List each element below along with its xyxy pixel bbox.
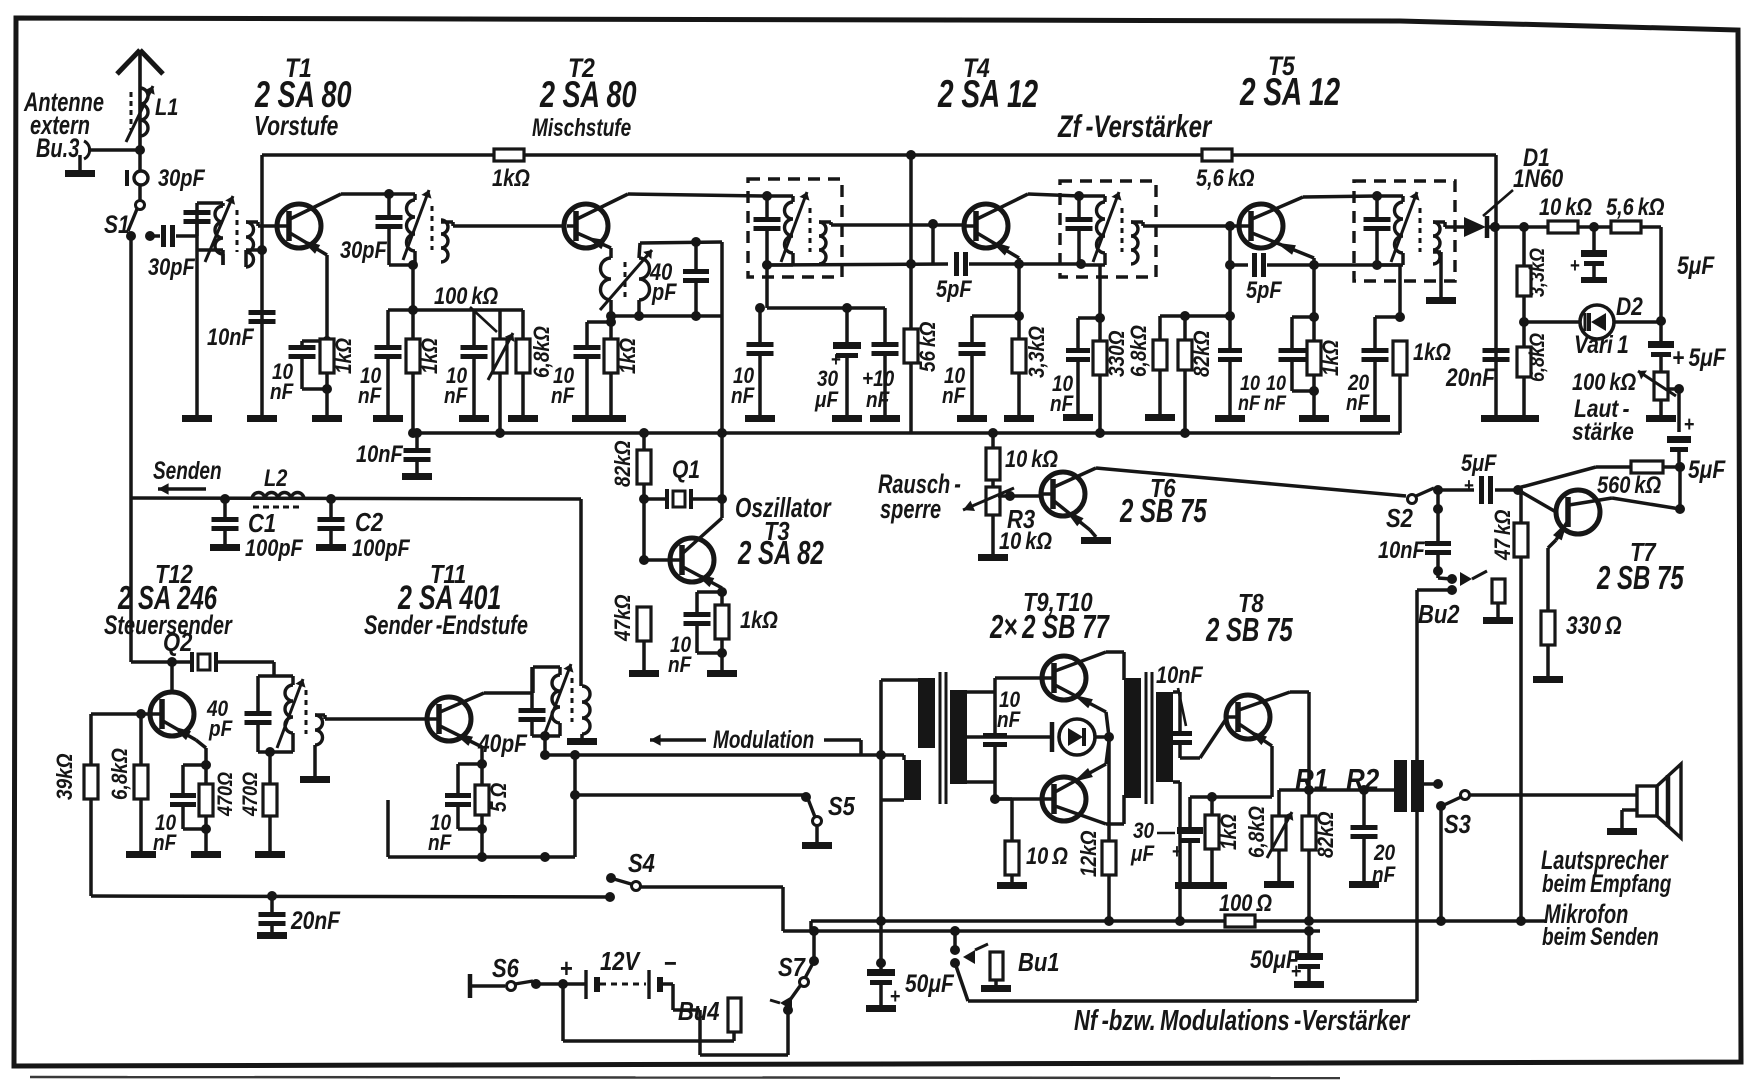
svg-text:2 SB 75: 2 SB 75: [1119, 493, 1207, 530]
wire osc winding top: [639, 243, 640, 258]
pot wiper to 5uF coupling: [1674, 384, 1684, 394]
wire T1-tank secondary to T2 base: [441, 220, 453, 224]
svg-text:nF: nF: [358, 384, 382, 409]
antenna tank secondary coil: [246, 222, 254, 267]
svg-text:Bu1: Bu1: [1018, 948, 1060, 977]
wire IF3 bottom to 20nF/1k row: [1377, 263, 1400, 267]
wire trafo upper primary left: [881, 678, 918, 682]
svg-text:470Ω: 470Ω: [214, 772, 238, 817]
output transformer secondary: [1156, 692, 1173, 782]
bias riser T4 from bus: [906, 150, 916, 160]
svg-text:100pF: 100pF: [352, 534, 410, 561]
svg-text:+: +: [831, 348, 841, 371]
T2 emitter resistor 1kOhm: [609, 316, 613, 339]
capacitor 10nF T4 emitter: [972, 314, 1019, 318]
node C1: [220, 494, 230, 504]
wire secondary top to T9: [967, 690, 995, 694]
svg-text:10 Ω: 10 Ω: [1026, 842, 1068, 869]
svg-text:10 kΩ: 10 kΩ: [1539, 193, 1592, 220]
wire battery rail: [783, 929, 1320, 933]
svg-text:Sender -Endstufe: Sender -Endstufe: [364, 610, 528, 639]
wire mid: [1577, 225, 1612, 229]
speaker: [1637, 786, 1657, 816]
wire secondary to T11 base: [315, 713, 325, 717]
svg-text:Q1: Q1: [672, 455, 700, 483]
svg-text:30pF: 30pF: [340, 236, 387, 263]
ground x262: [247, 415, 277, 422]
resistor 1kOhm T1 emitter: [320, 339, 334, 373]
wire S3 to speaker: [1470, 793, 1637, 797]
svg-text:1N60: 1N60: [1513, 164, 1563, 192]
svg-text:3,3kΩ: 3,3kΩ: [1526, 248, 1550, 297]
volume pot branch: capacitor 5uF: [1659, 321, 1663, 341]
microphone transformer winding left: [1394, 760, 1407, 812]
wire T2 collector to IF1 top: [628, 194, 767, 196]
resistor 560kOhm: [1518, 467, 1596, 488]
svg-text:2× 2 SB 77: 2× 2 SB 77: [989, 609, 1110, 646]
resistor 1kOhm T2 base: [411, 310, 415, 339]
capacitor 30uF electrolytic: [845, 308, 849, 342]
diode D2 varicap line: [1524, 320, 1581, 324]
wire Bu2 second contact to mic trafo column: [1417, 588, 1452, 592]
svg-text:10nF: 10nF: [1378, 536, 1425, 563]
pointer 10nF T8: [1178, 688, 1186, 726]
capacitor 10nF T11: [458, 762, 482, 766]
node C2: [326, 494, 336, 504]
capacitor 10nF T1 emitter: [302, 339, 327, 343]
jack Bu2: [1447, 574, 1457, 584]
svg-text:5pF: 5pF: [1246, 276, 1282, 303]
svg-text:30: 30: [1133, 819, 1155, 844]
IF3 tuned circuit: [1377, 194, 1403, 198]
dash 30uF: [1157, 832, 1175, 835]
transistor T2: [564, 204, 608, 248]
ground T3 emitter: [707, 670, 737, 677]
svg-text:5pF: 5pF: [936, 275, 972, 302]
resistor 1kOhm T5 emitter: [1307, 341, 1321, 375]
svg-text:5 Ω: 5 Ω: [487, 783, 512, 812]
capacitor 20nF (detector filter): [1373, 317, 1377, 348]
svg-text:μF: μF: [814, 388, 839, 413]
antenna tank coil (tuned): [221, 203, 225, 206]
svg-text:82kΩ: 82kΩ: [1190, 330, 1215, 377]
transistor T8: [1226, 695, 1270, 739]
svg-text:C2: C2: [355, 508, 384, 537]
capacitor C2 100pF: [329, 499, 333, 517]
wire to 20nF and mic trafo: [1309, 788, 1364, 792]
capacitor 10nF AGC: [883, 308, 887, 342]
wire modulation arrow: [650, 738, 706, 741]
wire secondary to T1 base: [246, 220, 258, 224]
svg-text:Senden: Senden: [153, 456, 222, 484]
svg-text:10 kΩ: 10 kΩ: [1005, 445, 1058, 472]
wire Q2 line: [131, 660, 192, 664]
resistor 6,8kOhm bias2: [521, 310, 525, 339]
IF1 tuned circuit: [767, 194, 793, 198]
wire trafo lower primary bottom: [881, 798, 904, 802]
lower supply bus wire: [409, 431, 1400, 435]
resistor 12kOhm: [1107, 737, 1111, 841]
capacitor 10nF T3: [697, 590, 722, 594]
battery 12V: [584, 970, 587, 999]
wire trimmer to S1: [138, 185, 142, 200]
wire Bu4 to S7 contact: [673, 1008, 700, 1012]
svg-text:S6: S6: [492, 954, 519, 983]
svg-text:50μF: 50μF: [905, 969, 955, 997]
svg-text:S7: S7: [778, 953, 806, 982]
svg-text:10nF: 10nF: [1156, 661, 1203, 688]
resistor 56kOhm: [904, 329, 918, 363]
svg-text:1kΩ: 1kΩ: [492, 164, 530, 191]
resistor 47kOhm T7: [1518, 488, 1521, 492]
wire S3 arm down to bus: [1439, 806, 1443, 921]
switch S5: [813, 817, 822, 826]
wire mod to trafo: [861, 753, 904, 757]
capacitor 40pF T11 tank: [530, 667, 534, 708]
wire out-trafo secondary top: [1173, 690, 1180, 694]
resistor 470 Ohm tank dropper: [268, 752, 272, 784]
svg-text:1kΩ: 1kΩ: [418, 338, 443, 374]
wire 20nF node to mic trafo: [1364, 788, 1394, 792]
node 20nF key: [267, 891, 277, 901]
output transformer primary: [1124, 678, 1141, 798]
IF transformer 2 (dashed can): [1060, 181, 1156, 277]
capacitor 5pF neutralizing T4: [931, 224, 935, 264]
svg-text:47kΩ: 47kΩ: [611, 594, 636, 641]
wire 10nF S2 branch: [1436, 490, 1440, 541]
svg-text:560 kΩ: 560 kΩ: [1597, 471, 1661, 498]
svg-text:nF: nF: [866, 388, 890, 413]
svg-text:nF: nF: [997, 708, 1021, 733]
svg-text:1kΩ: 1kΩ: [1217, 814, 1242, 850]
svg-text:1kΩ: 1kΩ: [1413, 338, 1451, 365]
ground T11 secondary: [580, 734, 584, 738]
capacitor C1 100pF: [223, 499, 227, 517]
transistor T11: [427, 697, 471, 741]
svg-text:stärke: stärke: [1572, 417, 1634, 445]
resistor 6,8kOhm agc: [1522, 322, 1526, 347]
switch S6: [468, 974, 473, 998]
transistor T6: [1041, 472, 1085, 516]
microphone transformer winding right: [1411, 760, 1424, 812]
capacitor 30pF series (RX): [148, 234, 160, 238]
wire S4 to supply corner: [640, 885, 783, 889]
oscillator column vertical: [717, 428, 727, 438]
resistor 5,6kOhm det: [1611, 221, 1641, 233]
node IF2 bottom: [1076, 259, 1086, 269]
output transformer core: [1145, 672, 1148, 804]
wire T4 emitter down: [1017, 258, 1021, 316]
driver transformer primary winding lower: [904, 760, 921, 800]
svg-text:5μF: 5μF: [1461, 449, 1497, 476]
transistor T7: [1556, 490, 1600, 534]
potentiometer 100kOhm volume: [1654, 372, 1668, 400]
resistor 1kOhm T3: [715, 605, 729, 639]
svg-text:82kΩ: 82kΩ: [1314, 811, 1339, 858]
wire det to right corner: [1640, 225, 1661, 229]
resistor 330 Ohm: [1541, 611, 1555, 645]
capacitor 10nF T5 base decoupling: [1218, 348, 1242, 353]
capacitor 5uF detector (electrolytic): [1592, 227, 1596, 250]
wire out-trafo secondary bottom: [1173, 780, 1180, 784]
svg-text:D2: D2: [1616, 292, 1643, 320]
svg-text:nF: nF: [444, 384, 468, 409]
wire tank1 bottom down: [411, 265, 415, 310]
svg-text:5μF: 5μF: [1688, 455, 1726, 483]
wire T5 bias row: [1160, 314, 1230, 318]
svg-text:6,8kΩ: 6,8kΩ: [108, 748, 133, 800]
ground T1 emitter: [312, 415, 342, 422]
T11 emitter network: [480, 747, 484, 857]
svg-text:2 SA 82: 2 SA 82: [737, 535, 824, 572]
trimmer R1 6,8kOhm: [1277, 790, 1281, 816]
resistor 10kOhm det: [1548, 221, 1578, 233]
wire IF2 secondary to T5 base: [1131, 220, 1143, 224]
wire to T12 tank top: [272, 662, 276, 676]
wire T8 collector: [1290, 690, 1309, 694]
T11 tank top wire: [533, 665, 560, 669]
wire R1/R2 top: [1279, 788, 1309, 792]
capacitor 10nF below bus: [412, 428, 422, 438]
wire to T8 base: [1200, 719, 1226, 758]
transistor T4: [964, 204, 1008, 248]
svg-text:56 kΩ: 56 kΩ: [916, 322, 941, 372]
trimmer resistor 100kOhm: [498, 310, 502, 339]
mic trafo tap to S3 contact: [1424, 782, 1438, 786]
transistor T3 oscillator: [670, 538, 714, 582]
antenna symbol: [138, 52, 142, 150]
switch S7: [809, 956, 819, 966]
scan page edge artifact: [30, 1077, 1340, 1078]
resistor 1kOhm (AGC return): [1393, 341, 1407, 375]
capacitor 10nF under IF1: [758, 308, 762, 342]
svg-text:+: +: [1464, 474, 1474, 497]
wire S6 to battery: [536, 982, 586, 986]
svg-text:Mischstufe: Mischstufe: [532, 113, 631, 141]
wire R3 wiper to T6 base: [998, 494, 1041, 498]
speaker ground bracket: [1622, 808, 1637, 812]
svg-text:L2: L2: [264, 464, 287, 491]
svg-text:6,8kΩ: 6,8kΩ: [530, 326, 555, 378]
wire NF return column: [879, 680, 883, 921]
node IF2 top: [1074, 191, 1084, 201]
svg-text:30pF: 30pF: [158, 164, 205, 191]
antenna tank top wire: [197, 201, 223, 205]
trimmer R2 82kOhm: [1307, 790, 1311, 816]
wire to T7 base: [1518, 490, 1556, 512]
wire T7 emitter to 330: [1548, 540, 1556, 548]
wire TX feed vertical: [129, 498, 133, 662]
svg-text:1kΩ: 1kΩ: [1319, 340, 1344, 376]
wire upper NF bus: [811, 919, 1545, 923]
wire T12 base bias: [91, 712, 150, 716]
capacitor 5uF S2 (series): [1438, 488, 1474, 492]
svg-text:2 SB 75: 2 SB 75: [1596, 560, 1684, 597]
svg-text:100 kΩ: 100 kΩ: [1572, 368, 1636, 395]
ground T12 secondary: [313, 745, 317, 776]
switch S4: [605, 892, 615, 902]
wire Senden line down to T11 output coil: [579, 499, 583, 686]
node T1 tank top: [384, 189, 394, 199]
capacitor 20nF NF: [1362, 790, 1366, 825]
capacitor 10nF IF2 dropper: [1078, 316, 1100, 320]
node tank1 bottom: [408, 260, 418, 270]
resistor 5 Ohm: [475, 785, 489, 815]
svg-text:−: −: [664, 949, 677, 978]
svg-text:beim Empfang: beim Empfang: [1542, 869, 1672, 897]
svg-text:nF: nF: [1050, 392, 1074, 417]
oscillator injection transformer at T2 emitter: [609, 248, 613, 258]
svg-text:Zf -Verstärker: Zf -Verstärker: [1057, 109, 1213, 144]
svg-text:pF: pF: [208, 717, 233, 742]
svg-text:Nf -bzw. Modulations -Verstärk: Nf -bzw. Modulations -Verstärker: [1074, 1005, 1411, 1037]
detector output wire: [1487, 225, 1549, 229]
wire IF3 secondary to D1: [1433, 220, 1445, 224]
switch S1: [136, 201, 145, 210]
svg-text:6,8kΩ: 6,8kΩ: [1245, 806, 1270, 858]
svg-text:10nF: 10nF: [207, 323, 254, 350]
svg-text:+: +: [1291, 960, 1302, 984]
svg-text:S4: S4: [628, 849, 655, 878]
riser S5/S4 rail: [573, 755, 577, 857]
capacitor 50uF NF supply: [876, 958, 886, 968]
wire T5 collector to IF3: [1303, 196, 1377, 197]
svg-text:+: +: [890, 985, 901, 1009]
svg-text:nF: nF: [731, 384, 755, 409]
capacitor 10nF T12: [183, 763, 206, 767]
svg-text:470Ω: 470Ω: [239, 772, 263, 817]
wire T11 collector to tank: [484, 691, 533, 695]
ground antenna tank: [182, 415, 212, 422]
svg-text:S2: S2: [1386, 504, 1413, 533]
svg-text:L1: L1: [155, 93, 178, 120]
transistor T5: [1239, 204, 1283, 248]
IF2 tuned circuit: [1079, 194, 1105, 198]
IF transformer 3 (dashed can): [1354, 181, 1455, 281]
wire T12 collector up: [170, 662, 174, 692]
svg-text:nF: nF: [1346, 391, 1370, 416]
node secondary-bottom on x262: [257, 245, 267, 255]
svg-text:2 SB 75: 2 SB 75: [1205, 612, 1293, 649]
svg-text:6,8kΩ: 6,8kΩ: [1127, 325, 1152, 377]
capacitor 10nF T1 decoupling: [249, 310, 276, 315]
svg-text:12V: 12V: [600, 947, 641, 976]
capacitor 10nF T5 emitter: [1292, 315, 1314, 319]
driver transformer core: [939, 672, 942, 804]
capacitor 10nF T8 coupling: [1168, 731, 1192, 736]
wire T4 collector to IF2: [1028, 194, 1079, 196]
resistor 6,8kOhm T5 bias: [1158, 316, 1162, 340]
trimmer capacitor 30pF (to ground side): [125, 170, 129, 186]
wire S1 TX throw down (long vertical to Senden line): [129, 236, 133, 498]
node IF3 top: [1372, 191, 1382, 201]
resistor 5,6kOhm in supply bus: [1202, 149, 1232, 161]
resistor 6,8kOhm T12: [139, 714, 143, 765]
svg-text:nF: nF: [942, 384, 966, 409]
resistor 82kOhm T5 bias: [1183, 316, 1187, 340]
svg-text:12kΩ: 12kΩ: [1077, 830, 1102, 877]
resistor 47kOhm osc: [637, 607, 651, 641]
svg-text:nF: nF: [428, 831, 452, 856]
svg-text:+: +: [1684, 413, 1695, 437]
svg-text:10nF: 10nF: [356, 440, 403, 467]
svg-text:10 kΩ: 10 kΩ: [999, 527, 1052, 554]
wire T6 collector to S2: [1096, 468, 1406, 496]
wire IF1 bottom to AGC row: [765, 265, 769, 308]
wire T8 emitter: [1270, 746, 1274, 797]
ground at Bu3: [78, 155, 82, 170]
svg-text:30pF: 30pF: [148, 253, 195, 280]
svg-text:1kΩ: 1kΩ: [332, 338, 357, 374]
T1 collector tuned transformer: [389, 192, 415, 196]
driver transformer primary winding upper: [918, 678, 935, 748]
svg-text:pF: pF: [651, 278, 677, 305]
T11 tank secondary: [582, 686, 590, 734]
wire mic trafo bottom down: [1415, 812, 1419, 1001]
svg-text:3,3kΩ: 3,3kΩ: [1025, 326, 1050, 378]
capacitor 50uF output: [1307, 931, 1311, 953]
driver transformer secondary: [950, 690, 967, 784]
jack Bu1: [950, 945, 960, 955]
resistor 100 Ohm in bus: [1225, 915, 1255, 927]
svg-text:20nF: 20nF: [290, 906, 341, 934]
svg-text:2 SA 80: 2 SA 80: [539, 74, 636, 115]
wire bias row stage2: [388, 308, 523, 312]
svg-text:100 kΩ: 100 kΩ: [434, 282, 498, 309]
capacitor 10nF across secondary: [993, 692, 997, 733]
svg-text:40pF: 40pF: [477, 729, 528, 757]
wire Senden line: [131, 498, 581, 499]
transistor T9: [1042, 656, 1086, 700]
crystal Q2: [190, 652, 194, 672]
switch S3: [1461, 791, 1470, 800]
capacitor 30uF T8: [1188, 797, 1192, 827]
svg-text:+: +: [1172, 840, 1182, 863]
wire T5 emitter down: [1312, 258, 1316, 391]
svg-text:5μF: 5μF: [1677, 251, 1715, 279]
resistor 330 Ohm IF2 dropper: [1098, 265, 1102, 433]
wire T10 collector to output trafo: [1106, 822, 1124, 826]
svg-text:Bu.3: Bu.3: [36, 133, 79, 162]
T12 tank circuit: [258, 674, 274, 678]
svg-text:nF: nF: [551, 384, 575, 409]
svg-text:sperre: sperre: [880, 494, 941, 523]
capacitor 5uF coupling (wiper): [1667, 436, 1691, 443]
IF transformer 1 (dashed can): [748, 179, 842, 277]
svg-text:Vorstufe: Vorstufe: [254, 111, 338, 141]
svg-text:82kΩ: 82kΩ: [611, 440, 636, 487]
capacitor 10nF bias2: [472, 310, 476, 345]
node IF1 bottom: [762, 260, 772, 270]
svg-text:S5: S5: [828, 792, 855, 821]
svg-text:100 Ω: 100 Ω: [1219, 889, 1272, 916]
wire secondary bottom to T10: [967, 780, 995, 784]
resistor 1kOhm T8: [1205, 815, 1219, 849]
wire emitters join: [1106, 712, 1109, 737]
wire T5 base bias vertical: [1228, 226, 1232, 348]
capacitor 40pF variable: [694, 283, 698, 316]
svg-text:Q2: Q2: [163, 628, 193, 657]
svg-text:nF: nF: [1372, 863, 1396, 888]
wire Bu3 to antenna line: [88, 148, 140, 152]
capacitor 10nF T2 emitter: [587, 320, 611, 324]
svg-text:Modulation: Modulation: [713, 725, 814, 753]
resistor 470 Ohm T12: [199, 784, 213, 816]
capacitor 10nF S2: [1425, 541, 1451, 546]
svg-text:nF: nF: [153, 831, 177, 856]
wire keyed line from T12 stage: [91, 896, 610, 897]
wire T3 base from divider: [644, 558, 672, 562]
